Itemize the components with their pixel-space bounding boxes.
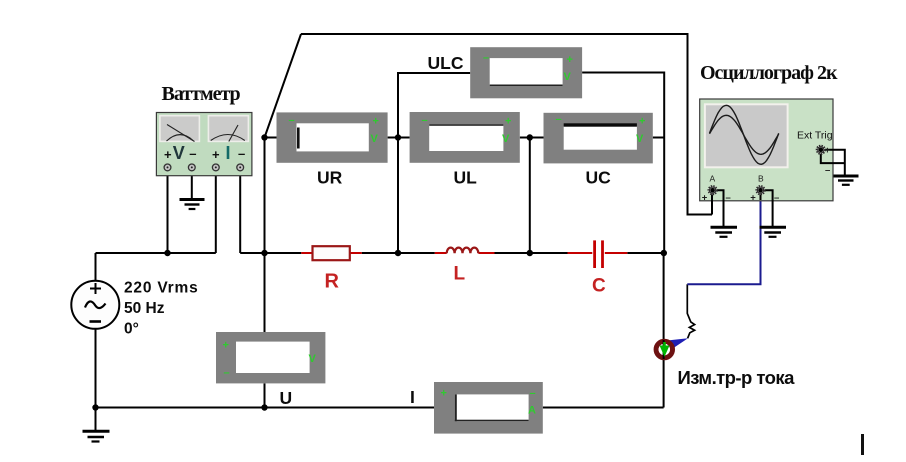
svg-text:UL: UL bbox=[454, 168, 478, 188]
svg-text:+: + bbox=[825, 145, 830, 155]
svg-text:+: + bbox=[441, 388, 447, 400]
svg-text:–: – bbox=[825, 165, 830, 176]
svg-text:+: + bbox=[212, 147, 220, 162]
svg-text:U: U bbox=[280, 388, 293, 408]
svg-text:UR: UR bbox=[317, 168, 343, 188]
svg-text:A: A bbox=[710, 174, 716, 184]
svg-text:Ваттметр: Ваттметр bbox=[162, 83, 241, 105]
svg-text:–: – bbox=[238, 146, 245, 161]
svg-text:B: B bbox=[758, 174, 764, 184]
svg-text:I: I bbox=[226, 143, 231, 163]
svg-text:V: V bbox=[502, 133, 510, 145]
svg-text:–: – bbox=[224, 367, 230, 379]
svg-text:V: V bbox=[309, 353, 317, 365]
svg-text:V: V bbox=[636, 133, 644, 145]
svg-text:220 Vrms: 220 Vrms bbox=[124, 280, 199, 297]
svg-text:I: I bbox=[410, 387, 415, 407]
svg-text:V: V bbox=[564, 71, 572, 83]
svg-text:–: – bbox=[422, 115, 428, 127]
svg-text:–: – bbox=[726, 193, 731, 204]
svg-text:–: – bbox=[289, 115, 295, 127]
svg-text:–: – bbox=[774, 193, 779, 204]
svg-text:A: A bbox=[528, 405, 536, 417]
svg-text:–: – bbox=[189, 146, 196, 161]
svg-text:–: – bbox=[483, 52, 489, 64]
svg-text:V: V bbox=[173, 143, 185, 163]
svg-text:+: + bbox=[750, 193, 756, 204]
svg-text:+: + bbox=[567, 54, 573, 66]
svg-text:+: + bbox=[639, 116, 645, 128]
svg-text:UC: UC bbox=[586, 168, 612, 188]
svg-text:Изм.тр-р тока: Изм.тр-р тока bbox=[678, 367, 796, 388]
svg-text:50 Hz: 50 Hz bbox=[124, 300, 165, 317]
svg-text:+: + bbox=[373, 116, 379, 128]
svg-text:C: C bbox=[592, 276, 606, 297]
svg-text:V: V bbox=[371, 133, 379, 145]
svg-text:Осциллограф 2к: Осциллограф 2к bbox=[700, 62, 838, 84]
svg-text:0°: 0° bbox=[124, 321, 139, 338]
svg-text:–: – bbox=[556, 114, 562, 126]
svg-text:R: R bbox=[325, 271, 340, 293]
svg-text:+: + bbox=[505, 116, 511, 128]
svg-text:Ext Trig: Ext Trig bbox=[797, 130, 833, 142]
svg-text:+: + bbox=[164, 147, 172, 162]
svg-text:L: L bbox=[454, 264, 466, 285]
svg-text:+: + bbox=[702, 193, 708, 204]
svg-text:ULC: ULC bbox=[428, 53, 464, 73]
svg-text:–: – bbox=[530, 388, 536, 400]
svg-text:+: + bbox=[223, 340, 229, 352]
